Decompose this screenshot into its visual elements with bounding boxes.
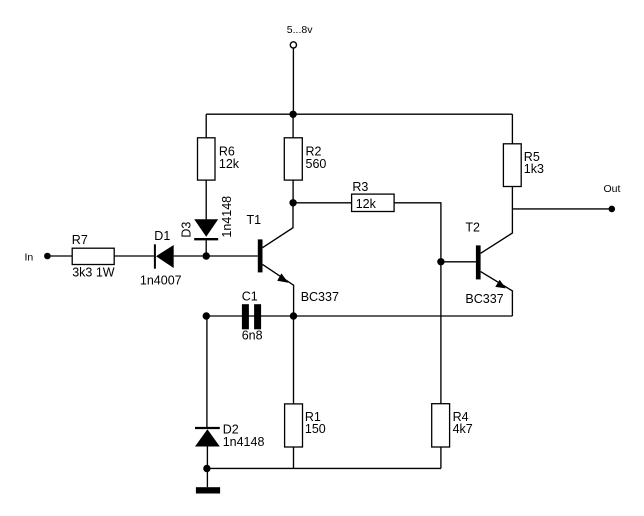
wire D3 to input node	[205, 240, 207, 256]
resistor R2	[284, 138, 302, 180]
wire R4 to bottom rail	[440, 447, 442, 468]
node R2/R3/T1 junction	[289, 199, 296, 206]
svg-text:12k: 12k	[356, 197, 377, 211]
wire power terminal to top rail	[292, 48, 294, 114]
resistor R5	[503, 144, 521, 187]
wire Out branch	[512, 208, 609, 210]
wire T1 emitter	[263, 264, 294, 316]
svg-text:560: 560	[306, 157, 327, 171]
node C1 left junction	[203, 312, 210, 319]
svg-text:1n4148: 1n4148	[220, 196, 234, 238]
diode D1	[154, 244, 156, 268]
wire R1 to bottom rail	[293, 447, 295, 468]
ground	[196, 487, 220, 493]
power terminal 5...8v	[290, 42, 296, 48]
wire R3 to T2 base	[394, 203, 441, 262]
node base junction	[203, 252, 210, 259]
wire R7 to D1	[114, 255, 154, 257]
node ground junction	[203, 465, 210, 472]
wire rail to R6	[205, 114, 207, 138]
svg-text:T2: T2	[465, 221, 480, 235]
svg-text:3k3 1W: 3k3 1W	[72, 265, 115, 279]
wire rail to R2	[292, 114, 294, 138]
wire T2 collector	[481, 187, 513, 254]
wire D1 to T1 base	[174, 255, 258, 257]
svg-text:BC337: BC337	[465, 292, 503, 306]
resistor R1	[285, 404, 303, 447]
svg-text:R7: R7	[72, 233, 88, 247]
wire In to R7	[47, 255, 72, 257]
wire rail to R5	[511, 114, 513, 144]
svg-text:D3: D3	[180, 222, 194, 238]
svg-text:D1: D1	[154, 229, 170, 243]
svg-text:1k3: 1k3	[524, 162, 544, 176]
wire C1 junction to D2	[206, 316, 208, 427]
diode D3	[194, 219, 218, 236]
wire T1 collector	[263, 203, 294, 248]
svg-text:Out: Out	[604, 183, 621, 195]
svg-text:6n8: 6n8	[242, 329, 263, 343]
transistor T2	[476, 245, 481, 279]
svg-text:1n4007: 1n4007	[140, 274, 182, 288]
wire R2 to collector node	[292, 180, 294, 203]
wire junction to R3	[293, 202, 352, 204]
resistor R6	[198, 138, 216, 180]
node C1 right junction	[290, 312, 297, 319]
T1 emitter arrow	[277, 273, 288, 282]
wire to ground	[206, 468, 208, 487]
wire D2 to ground node	[206, 447, 208, 469]
wire R6 to D3	[205, 180, 207, 219]
svg-text:1n4148: 1n4148	[223, 435, 265, 449]
svg-text:In: In	[25, 251, 34, 263]
svg-text:150: 150	[305, 422, 326, 436]
svg-text:C1: C1	[242, 290, 258, 304]
wire emitter junction to R1	[293, 316, 295, 404]
T2 emitter arrow	[495, 280, 506, 289]
wire base junction to R4	[440, 262, 442, 404]
node In terminal	[44, 253, 51, 260]
wire top supply rail	[206, 113, 512, 115]
svg-text:5...8v: 5...8v	[287, 24, 313, 36]
svg-text:12k: 12k	[219, 157, 240, 171]
svg-text:4k7: 4k7	[453, 422, 473, 436]
resistor R3	[352, 194, 395, 211]
diode D2	[195, 427, 220, 429]
svg-text:T1: T1	[247, 213, 262, 227]
svg-text:BC337: BC337	[301, 290, 339, 304]
transistor T1	[258, 239, 263, 272]
node T2 base junction	[437, 258, 444, 265]
resistor R7	[72, 248, 114, 264]
node supply junction	[289, 111, 296, 118]
wire bottom rail	[207, 467, 441, 469]
wire emitter rail	[206, 315, 512, 317]
node Out terminal	[609, 206, 616, 213]
wire base junction to T2	[441, 261, 476, 263]
svg-text:R3: R3	[352, 180, 368, 194]
resistor R4	[432, 404, 450, 447]
capacitor C1	[242, 304, 249, 329]
wire T2 emitter	[481, 272, 513, 316]
